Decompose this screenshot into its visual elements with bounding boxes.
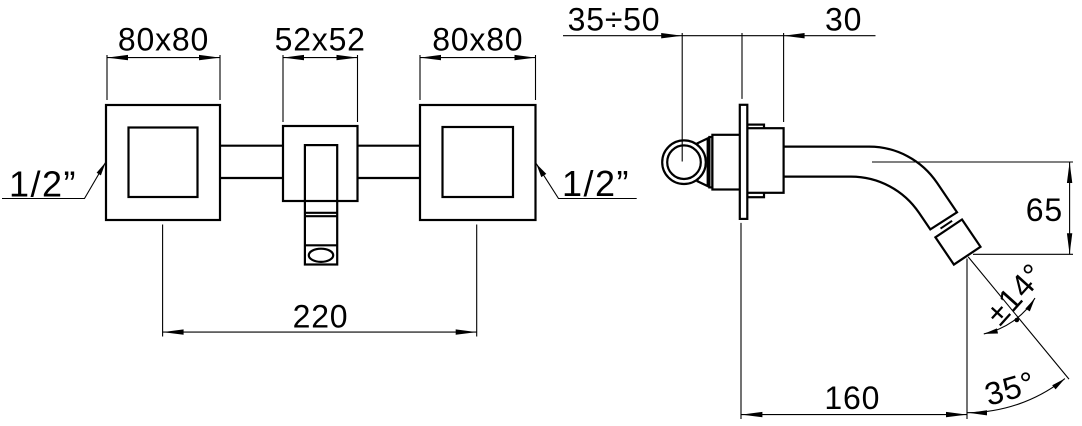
dimension 80x80 left [107, 21, 220, 100]
aerator joint line [941, 221, 953, 229]
svg-text:160: 160 [824, 380, 880, 416]
dimension 65 [872, 162, 1073, 254]
spout tube front (vertical) [305, 145, 337, 264]
svg-text:1/2”: 1/2” [562, 163, 630, 204]
wall flange behind plate [747, 125, 764, 198]
label 1/2 inch left with leader [2, 162, 106, 205]
handle neck [698, 138, 708, 186]
arc plus-minus 14 deg [978, 256, 1051, 334]
svg-text:65: 65 [1026, 192, 1063, 228]
dimension 30 [742, 2, 862, 122]
connecting bar right (bottom edge) [358, 177, 421, 179]
handle cylinder [712, 135, 741, 190]
left handle square 80x80 outer [106, 105, 220, 220]
dimension 52x52 [275, 21, 366, 122]
svg-text:80x80: 80x80 [432, 21, 523, 57]
dimension 220 [163, 225, 477, 337]
svg-text:30: 30 [825, 2, 862, 38]
valve body [747, 128, 783, 193]
handle ring outer circle [662, 140, 706, 184]
left handle square inner [129, 128, 198, 198]
connecting bar left (bottom edge) [220, 177, 283, 179]
dimension 35..50 [563, 2, 876, 162]
svg-text:1/2”: 1/2” [9, 164, 77, 205]
center line below plate [740, 223, 742, 419]
arc 35 deg [967, 364, 1065, 415]
right handle square 80x80 outer [420, 105, 536, 220]
dimension 80x80 right [420, 21, 536, 100]
connecting bar left (top edge) [220, 145, 283, 147]
svg-text:35÷50: 35÷50 [568, 2, 661, 38]
svg-text:52x52: 52x52 [275, 21, 366, 57]
connecting bar right (top edge) [358, 145, 421, 147]
handle ring inner circle [667, 145, 701, 179]
wall plate [740, 105, 748, 219]
handle washer [709, 137, 712, 187]
svg-text:220: 220 [293, 298, 349, 334]
axis leader diagonal [968, 257, 1069, 379]
aerator block [935, 220, 980, 265]
svg-text:80x80: 80x80 [118, 21, 209, 57]
right handle square inner [443, 127, 514, 197]
spout tube side (curved) [748, 147, 958, 230]
label 1/2 inch right with leader [536, 163, 636, 204]
middle escutcheon square 52x52 [283, 126, 358, 201]
dimension 160 [741, 259, 967, 420]
